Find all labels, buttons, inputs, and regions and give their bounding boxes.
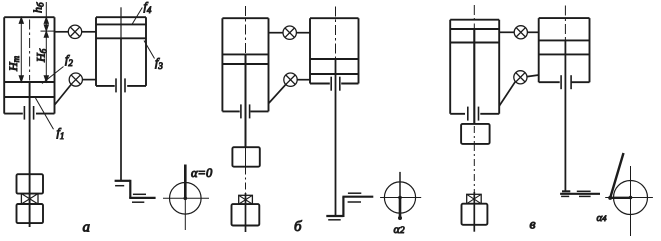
cylinder A piston rod down to ground: [120, 38, 122, 180]
valve V1v circle: [514, 26, 527, 39]
cylinder B body: [310, 18, 359, 83]
crank V horizontal centerline: [605, 197, 653, 199]
weight V lower block: [462, 204, 488, 225]
valve V2b circle: [284, 73, 297, 86]
tank A gland tick left: [23, 106, 25, 120]
ground V lower hatch right: [579, 195, 591, 197]
ground A rod bar: [115, 180, 131, 182]
cylinder B bottom with rod opening: [310, 83, 359, 85]
crank A arm (alpha=0, up): [184, 165, 187, 199]
linkage B centerline dash-dot: [245, 168, 247, 194]
tank V piston rod to block: [473, 29, 475, 124]
crank B center pin: [398, 196, 402, 200]
cylinder V piston line upper: [539, 39, 590, 41]
ground B hatch below: [348, 201, 361, 203]
crank B arm (alpha2, down): [399, 198, 402, 219]
valve V2v cross: [516, 73, 525, 82]
crank B arm end pin: [398, 216, 402, 220]
weight A lower block: [17, 204, 44, 223]
cylinder A gland tick left: [115, 78, 117, 92]
tank A bottom with rod opening: [4, 113, 54, 115]
cylinder V bottom with rod opening: [539, 81, 590, 83]
weight A crossed box X: [21, 194, 38, 204]
pipe valve V1a to cylinder A: [82, 31, 96, 33]
arrow H_t top: [19, 17, 23, 23]
pipe valve V1b to cylinder B: [296, 32, 310, 34]
leader f2: [42, 67, 64, 84]
tank B piston rod to block: [245, 54, 247, 147]
ground B hatch under bar: [328, 219, 341, 221]
ground V main line: [560, 193, 600, 195]
dimension line h_b and H_b: [45, 2, 47, 81]
weight B lower block: [232, 204, 260, 225]
crank V connecting link (alpha4): [610, 153, 624, 199]
valve V1b circle: [283, 26, 296, 39]
ground V lower hatch left: [561, 195, 569, 197]
tank V piston line lower: [450, 42, 499, 44]
crank A center pin: [184, 197, 188, 201]
ground B rod bar: [326, 215, 343, 217]
valve V2b cross: [286, 75, 295, 84]
crank V arm (horizontal to left): [610, 197, 631, 199]
ground A hatch below: [132, 201, 144, 203]
cylinder A line f4: [96, 23, 146, 25]
weight V upper block: [461, 124, 490, 144]
arrow h_b top: [44, 17, 48, 23]
rod B thin line through block: [245, 147, 247, 167]
ground V upper hatch right: [577, 190, 591, 192]
pipe level extension line inside tank: [41, 30, 55, 32]
tank B bottom with rod opening: [222, 110, 268, 112]
leader f3: [144, 41, 155, 59]
cylinder V gland tick left: [560, 75, 562, 89]
leader f4: [132, 8, 142, 25]
tank A gland tick right: [33, 106, 35, 120]
cylinder B piston rod to ground: [335, 59, 337, 216]
cylinder V body: [539, 18, 590, 82]
pipe valve V2b to cylinder B: [297, 79, 310, 81]
cylinder B gland tick right: [339, 77, 341, 91]
arrow H_b top: [44, 31, 48, 37]
svg-text:α=0: α=0: [191, 166, 213, 180]
cylinder B centerline: [335, 7, 337, 59]
pipe tank B to valve V1b: [269, 32, 284, 34]
tank V gland tick right: [478, 107, 480, 121]
valve V1a cross: [70, 27, 79, 36]
tank A piston line upper: [4, 81, 54, 83]
ground A step vertical: [129, 180, 131, 198]
weight A upper block: [17, 174, 44, 193]
tank B gland tick right: [249, 104, 251, 118]
tank A body: [4, 17, 54, 113]
tank B piston line lower: [222, 63, 268, 65]
cylinder V gland tick right: [570, 75, 572, 89]
ground A hatch under bar: [115, 185, 124, 187]
pipe tank V to valve V2v (diagonal): [499, 81, 515, 106]
weight B upper block: [232, 147, 259, 167]
valve V1v cross: [516, 28, 525, 37]
cylinder B piston line upper: [310, 58, 359, 60]
ground B hatch above: [348, 192, 361, 194]
tank A piston rod down to weights: [29, 82, 31, 227]
linkage V centerline dash-dot: [473, 144, 475, 192]
rod B through crossed box: [245, 193, 247, 232]
ground A hatch above: [133, 193, 146, 195]
tank V bottom with rod opening: [450, 113, 499, 115]
ground V rod bar: [562, 190, 570, 192]
ground B step vertical: [342, 197, 344, 217]
tank B body: [222, 18, 268, 111]
tank A centerline: [29, 20, 31, 81]
valve V1a circle: [68, 25, 81, 38]
svg-text:б: б: [294, 219, 302, 235]
crank A vertical centerline below: [184, 198, 186, 230]
pipe tank A to valve V2a (diagonal): [55, 84, 72, 105]
crank V circle: [614, 181, 648, 215]
weight V crossed box: [467, 194, 482, 203]
tank B piston line upper: [222, 53, 268, 55]
crank V vertical centerline: [630, 166, 632, 236]
pipe tank B to valve V2b (diagonal): [269, 84, 286, 103]
valve V2a cross: [71, 75, 80, 84]
rod V thin line through block: [473, 126, 475, 143]
svg-text:а: а: [83, 220, 91, 236]
cylinder V piston rod to ground: [564, 40, 566, 191]
crank A circle: [170, 183, 202, 215]
pipe valve V2a to cylinder A: [82, 79, 96, 81]
cylinder V centerline: [564, 6, 566, 41]
ground B step horizontal: [342, 196, 373, 198]
pipe tank A to valve V1: [55, 31, 69, 33]
pipe valve V1v to cylinder V: [527, 31, 538, 33]
tank A piston line lower: [4, 96, 54, 98]
svg-text:в: в: [530, 218, 536, 233]
valve V1b cross: [285, 28, 294, 37]
tank B gland tick left: [240, 104, 242, 118]
cylinder A bottom with rod opening: [96, 85, 146, 87]
valve V2v circle: [514, 71, 527, 84]
cylinder V piston line lower: [539, 53, 590, 55]
crank B vertical centerline: [399, 172, 401, 198]
leader f1: [36, 98, 54, 129]
cylinder A gland tick right: [124, 78, 126, 92]
weight B crossed box: [239, 195, 253, 204]
tank V body: [450, 20, 499, 114]
cylinder B gland tick left: [330, 77, 332, 91]
weight B crossed box X: [239, 195, 253, 204]
rod V through crossed box: [473, 192, 475, 232]
crank B horizontal centerline: [380, 197, 421, 199]
cylinder A line f3: [96, 37, 146, 39]
dimension H_t line: [20, 19, 22, 81]
weight V crossed box X: [467, 194, 482, 203]
weight A crossed box: [21, 194, 38, 204]
crank B circle: [384, 182, 415, 213]
cylinder A centerline: [120, 7, 122, 38]
cylinder A body: [96, 17, 146, 86]
crank V center pin: [629, 196, 633, 200]
pipe tank V to valve V1v: [499, 31, 514, 33]
arrow H_b bottom: [44, 76, 48, 82]
tank V gland tick left: [467, 107, 469, 121]
pipe valve V2v to cylinder V: [527, 75, 539, 77]
crank V vertex pin: [608, 196, 612, 200]
valve V2a circle: [69, 73, 82, 86]
svg-text:α4: α4: [597, 212, 608, 224]
ground A step horizontal: [129, 197, 155, 199]
tank B centerline: [245, 6, 247, 54]
cylinder B piston line lower: [310, 73, 359, 75]
tank V centerline: [473, 5, 475, 29]
arrow H_t bottom: [19, 76, 23, 82]
arrow h_b bottom: [44, 25, 48, 31]
tank V piston line upper: [450, 28, 499, 30]
crank A horizontal centerline: [163, 197, 209, 199]
